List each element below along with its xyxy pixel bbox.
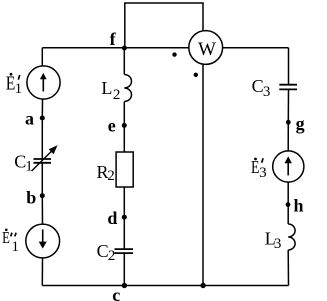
wire wattmeter bottom vertical	[202, 65, 204, 286]
svg-text:a: a	[25, 108, 34, 128]
source E''1 arrow	[39, 229, 47, 248]
wire C2 to node c	[123, 253, 125, 285]
capacitor C1 variable arrow	[32, 145, 58, 171]
svg-text:2: 2	[107, 168, 115, 184]
svg-text:C: C	[252, 76, 264, 96]
wattmeter polarity dot current coil	[172, 52, 176, 56]
svg-text:d: d	[107, 208, 117, 228]
wire bypass f up and over to wattmeter top	[125, 3, 203, 48]
node d	[122, 215, 127, 220]
wire bottom horizontal	[42, 285, 288, 287]
svg-text:L: L	[101, 78, 112, 98]
wire E'3 to node h	[287, 182, 289, 204]
wire f to wattmeter left	[124, 47, 188, 49]
wire node h to L3	[287, 205, 289, 224]
node c	[122, 283, 127, 288]
wire node b to E''1	[41, 196, 43, 224]
svg-text:c: c	[112, 285, 120, 301]
svg-text:g: g	[296, 113, 305, 133]
svg-text:3: 3	[259, 165, 267, 181]
wire R2 to node d	[123, 187, 125, 217]
wattmeter U1 circle	[189, 31, 223, 65]
inductor L3 coil	[288, 224, 295, 250]
label E''1	[2, 228, 19, 255]
capacitor C1 plates	[34, 158, 52, 160]
node f	[122, 46, 127, 51]
junction wattmeter branch bottom	[200, 283, 205, 288]
inductor L2 coil	[124, 75, 131, 102]
svg-text:W: W	[198, 39, 216, 60]
wire node d to C2	[123, 217, 125, 249]
svg-text:1: 1	[15, 81, 23, 97]
wire E'1 bottom to node a	[41, 100, 43, 119]
svg-text:b: b	[26, 188, 36, 208]
source E''1 circle	[26, 224, 60, 258]
wire node e to R2	[123, 125, 125, 152]
wire f to L2	[123, 48, 125, 75]
wire C3 to node g	[287, 89, 289, 122]
wattmeter polarity dot voltage coil	[194, 73, 198, 77]
label E'1	[6, 73, 22, 97]
source E'1 circle	[27, 66, 60, 99]
capacitor C3 plates	[279, 84, 297, 86]
node h	[286, 202, 291, 207]
wire L2 to node e	[123, 102, 125, 126]
svg-text:3: 3	[274, 236, 282, 252]
capacitor C2 plates	[115, 248, 134, 250]
svg-text:h: h	[294, 196, 304, 216]
svg-text:f: f	[110, 29, 117, 49]
wire left branch top	[41, 48, 43, 66]
wire L3 to bottom-right corner	[287, 250, 289, 286]
wire E''1 to bottom-left corner	[41, 258, 43, 285]
svg-text:2: 2	[113, 87, 121, 103]
node a	[40, 116, 45, 121]
wire right branch top	[288, 48, 290, 85]
source E'1 arrow	[40, 73, 47, 92]
wire node g to E'3	[287, 122, 289, 150]
svg-text:C: C	[97, 241, 109, 261]
wire C1 to node b	[41, 163, 43, 196]
source E'3 circle	[273, 151, 304, 182]
svg-text:1: 1	[25, 158, 33, 174]
node e	[122, 123, 127, 128]
source E'3 arrow	[285, 156, 292, 175]
svg-text:e: e	[108, 115, 116, 135]
wire wattmeter right to top-right corner	[223, 47, 289, 49]
wire top-left horizontal	[42, 47, 124, 49]
svg-text:3: 3	[263, 84, 271, 100]
node b	[40, 193, 45, 198]
wire node a to C1	[41, 118, 43, 159]
resistor R2 body	[116, 152, 133, 187]
svg-text:1: 1	[12, 239, 20, 255]
svg-text:2: 2	[108, 248, 116, 264]
node g	[286, 120, 291, 125]
label E'3	[251, 157, 267, 181]
